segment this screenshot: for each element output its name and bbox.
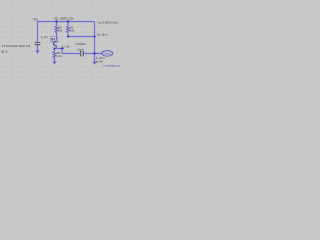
resistor R2 bottom wire (67, 33, 69, 37)
svg-text:10k: 10k (70, 29, 75, 33)
wire: left input vertical (37, 21, 39, 42)
svg-text:e.circuitsp.com: e.circuitsp.com (103, 63, 120, 67)
wire: corner from emitter rail down to output rail (61, 49, 63, 54)
resistor R1 zigzag (55, 26, 58, 33)
svg-text:1k_0hm: 1k_0hm (97, 33, 108, 37)
resistor R2 zigzag (67, 26, 70, 33)
wire: emitter rail (54, 48, 65, 50)
svg-text:ac 1: ac 1 (1, 50, 7, 54)
resistor R3 (emitter) top wire (54, 49, 56, 52)
small mark left of link (101, 61, 103, 62)
wire: emitter down (56, 47, 58, 49)
svg-text:ac 0: ac 0 (96, 60, 102, 64)
svg-text:10k: 10k (58, 29, 63, 33)
resistor R1 bottom wire to Q1 collector (56, 33, 58, 40)
wire: bottom rail left of C2 (62, 53, 80, 55)
junction dots (53, 20, 95, 54)
output oval label (102, 51, 113, 56)
capacitor C2 plates (81, 51, 84, 57)
resistor R2 top wire (67, 22, 69, 27)
resistor R3 bottom wire (54, 58, 56, 62)
svg-text:ac 5.0000 Vpk: ac 5.0000 Vpk (98, 21, 118, 25)
transistor Q1 probe box (50, 36, 57, 42)
svg-text:R2 10k: R2 10k (64, 17, 74, 21)
svg-text:Vin: Vin (33, 18, 38, 22)
ground arrow below output junction (94, 54, 96, 62)
input terminal arrow (35, 50, 39, 53)
svg-text:Output: Output (103, 52, 112, 56)
wire: top rail from input corner to right vertical (38, 21, 95, 23)
wire: bottom rail right of C2 (84, 53, 102, 55)
resistor R1 top wire (56, 22, 58, 27)
svg-text:C2 10u: C2 10u (62, 44, 71, 48)
svg-text:Q1: Q1 (51, 37, 55, 41)
Q1 emitter arrow (55, 45, 57, 47)
ground arrow below R3 (52, 62, 56, 65)
svg-text:k.2022a: k.2022a (75, 42, 86, 46)
svg-text:1.1k: 1.1k (57, 54, 63, 58)
transistor Q1 (54, 41, 57, 47)
capacitor C1 plates (35, 42, 41, 44)
wire: right vertical drop (94, 22, 96, 54)
wire: mid rail (68, 36, 95, 38)
resistor R3 zigzag (53, 51, 56, 58)
svg-text:10uF: 10uF (77, 47, 84, 51)
svg-text:V1 5.0mVpk 1kHz 0 D: V1 5.0mVpk 1kHz 0 D (2, 44, 30, 48)
wire: below C1 (37, 45, 39, 50)
svg-text:BC547: BC547 (52, 42, 59, 44)
svg-text:1_kV: 1_kV (41, 35, 48, 39)
